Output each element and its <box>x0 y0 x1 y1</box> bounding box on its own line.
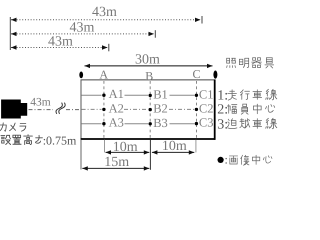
svg-text:1:: 1: <box>217 88 228 103</box>
extension line below column C <box>195 140 197 153</box>
10m dimension (A to B) <box>106 151 150 153</box>
svg-text:43m: 43m <box>70 20 95 35</box>
svg-text:43m: 43m <box>48 34 73 49</box>
svg-text:15m: 15m <box>104 155 129 170</box>
svg-text:B3: B3 <box>153 116 168 130</box>
measurement point dots <box>102 94 198 126</box>
svg-text:A3: A3 <box>109 116 124 130</box>
30m dimension arrow above roadway <box>85 65 213 67</box>
extension line below column B <box>149 140 151 170</box>
svg-text:A: A <box>99 68 108 82</box>
svg-text:C: C <box>192 67 200 81</box>
row 3 line segments <box>82 123 195 125</box>
svg-text::: : <box>225 153 228 167</box>
svg-text:B: B <box>145 69 153 83</box>
svg-text:C3: C3 <box>199 116 214 130</box>
10m dimension (B to C) <box>152 151 194 153</box>
15m dimension (left edge to B) <box>82 167 149 169</box>
svg-text:3:: 3: <box>217 117 228 132</box>
svg-text::0.75m: :0.75m <box>43 134 77 148</box>
lighting fixture (right, on top edge) <box>213 71 217 79</box>
line break squiggle <box>56 103 65 114</box>
svg-text:43m: 43m <box>92 5 117 20</box>
column B dashed line <box>149 81 151 139</box>
extension line below left edge <box>80 140 82 170</box>
tick at C end of top 43m line <box>201 16 203 24</box>
svg-text:B2: B2 <box>153 102 168 116</box>
roadway rectangle <box>81 80 216 140</box>
dimension line 43m (bottom, camera to A) <box>11 47 108 49</box>
dimension line 43m (top, camera to C) <box>11 19 201 21</box>
svg-text:2:: 2: <box>217 103 228 118</box>
label 設置高さ:0.75m (installation height) <box>1 135 42 145</box>
extension line below column A <box>104 140 106 153</box>
column C dashed line <box>196 81 198 139</box>
camera optical axis dash-dot line <box>29 109 81 111</box>
svg-text:C2: C2 <box>199 102 214 116</box>
camera reference vertical line <box>9 17 11 50</box>
svg-text:C1: C1 <box>199 87 214 101</box>
point labels A1..C3 <box>109 87 214 130</box>
svg-text:A2: A2 <box>109 101 124 115</box>
svg-text:43m: 43m <box>30 96 51 108</box>
svg-text:10m: 10m <box>113 140 138 155</box>
svg-text:B1: B1 <box>153 87 168 101</box>
column A dashed line <box>103 81 105 139</box>
camera icon <box>1 100 27 119</box>
legend bullet 画像中心 (image center) <box>218 157 224 163</box>
svg-text:30m: 30m <box>135 53 160 68</box>
tick at A end of bottom 43m line <box>108 44 110 52</box>
row 1 line segments <box>82 94 195 96</box>
svg-text:A1: A1 <box>109 87 124 101</box>
tick at B end of middle 43m line <box>154 30 156 38</box>
svg-text:10m: 10m <box>162 139 187 154</box>
row 2 dash-dot line segments <box>82 108 195 110</box>
label カメラ (camera) <box>0 123 26 131</box>
lighting fixture (left, on top edge) <box>79 72 83 79</box>
legend 照明器具 (lighting fixtures) <box>227 58 274 68</box>
dimension line 43m (middle, camera to B) <box>11 33 154 35</box>
